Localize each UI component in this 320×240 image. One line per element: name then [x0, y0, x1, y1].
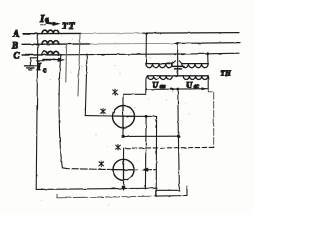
wire bus B — [22, 43, 240, 45]
polarity asterisk W2 voltage — [116, 144, 121, 150]
wire: W2 left lead — [62, 168, 113, 170]
junction dot node b — [177, 135, 180, 138]
wire: center vertical (node b) from rail down — [177, 89, 180, 136]
wire: node b vertical lower part — [157, 136, 179, 190]
polarity asterisk W1 current — [101, 109, 106, 115]
wire: secondary output rail — [146, 88, 208, 91]
TH center ground bars — [172, 66, 184, 69]
svg-text:В: В — [11, 41, 18, 51]
wattmeter W1 — [113, 106, 135, 128]
wire: TH riser from bus A — [145, 33, 147, 63]
arrow on rail (Ubc) — [202, 87, 208, 90]
ground (top left) — [25, 66, 37, 70]
wire: secondary right end drop — [207, 76, 209, 89]
wire: long vertical from W1 right lead down — [155, 116, 157, 196]
polarity asterisk W2 current — [99, 161, 104, 167]
wire: W1 left lead — [85, 115, 112, 117]
arrow on rail (Uab) — [171, 88, 177, 91]
transformer TH secondary winding right — [178, 76, 209, 80]
wattmeter W2 — [113, 159, 134, 180]
junction dot bus C / TH riser — [206, 52, 209, 55]
wire: ground tap — [30, 58, 37, 66]
wire: tap from coil C down to wattmeter W2 left lead — [59, 55, 62, 168]
wire: W1 bottom lead to node b — [123, 128, 178, 137]
svg-text:ТН: ТН — [221, 70, 232, 78]
transformer TH secondary winding left — [148, 76, 178, 80]
junction dot bus B / TH riser — [176, 42, 179, 45]
current transformer TT coil on bus A — [42, 30, 59, 33]
transformer TH primary winding right — [182, 64, 208, 68]
svg-text:вс: вс — [194, 84, 200, 90]
wire: W2 top lead — [123, 148, 125, 159]
current transformer TT coil on bus B — [42, 41, 59, 44]
wire bus C — [22, 53, 239, 55]
junction blob W2 bottom — [122, 186, 125, 189]
wire: tap from bus A down (fading) — [78, 34, 80, 96]
wire: TH riser from bus B (center) — [177, 44, 179, 76]
junction blob W1 bottom elbow — [122, 135, 125, 138]
wire: TH riser from bus C — [207, 54, 209, 64]
svg-text:А: А — [12, 29, 19, 39]
wire: secondary left end drop — [146, 76, 147, 90]
wire: dashed lead to W2 top (node c) — [124, 146, 214, 149]
wire: tap from bus C down to wattmeter W1 left lead — [85, 54, 87, 116]
label Ia with arrow — [39, 13, 61, 26]
wire bus A — [23, 33, 239, 34]
wire: W2 right lead with arrow — [134, 168, 156, 172]
label Uab — [152, 80, 166, 90]
svg-text:с: с — [43, 66, 46, 74]
junction dot W1 right lead — [145, 115, 148, 118]
wire: W2 bottom lead — [123, 180, 125, 190]
wire: W1 top lead to node a — [123, 89, 146, 105]
svg-text:ТТ: ТТ — [62, 22, 76, 32]
wire: left vertical from bus A down to bottom rail — [36, 34, 38, 190]
wire: riser from bottom rail to W1 right lead junction — [144, 116, 147, 189]
polarity asterisk W1 voltage — [113, 89, 118, 95]
label Ic with arrow — [36, 58, 65, 74]
wire: bottom rail (CT return) — [36, 188, 157, 189]
transformer TH primary winding left — [146, 64, 172, 68]
svg-text:U: U — [186, 79, 193, 89]
svg-text:С: С — [14, 51, 21, 61]
wire: W1 right lead — [135, 115, 157, 117]
svg-text:U: U — [152, 80, 159, 90]
wire: short tap from bus B (fading) — [65, 44, 68, 82]
label Ubc — [186, 79, 199, 89]
wire: lower bottom rail — [57, 186, 187, 198]
current transformer TT coil on bus C — [42, 51, 59, 54]
junction dot bus A / TH riser — [145, 32, 148, 35]
svg-text:ав: ав — [160, 84, 166, 90]
TH primary inner end ticks — [172, 61, 182, 64]
junction dot rail center — [176, 88, 179, 91]
wire: right side drop from rail to W2 voltage lead — [208, 89, 214, 148]
